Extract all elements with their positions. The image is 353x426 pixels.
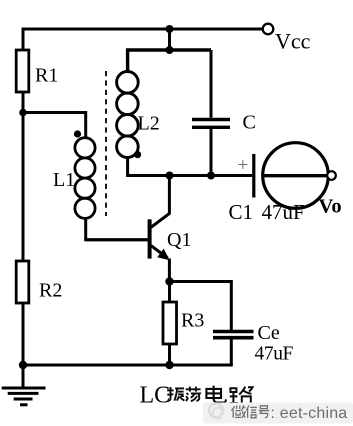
node junction R3 bottom xyxy=(165,361,173,369)
inductor L1 phase dot xyxy=(74,130,81,137)
wire L2 top up and right to capacitor C xyxy=(128,50,211,72)
node junction collector xyxy=(166,172,174,180)
terminal small circle right xyxy=(327,171,336,180)
inductor L2 phase dot xyxy=(134,151,141,158)
capacitor C1 left plate xyxy=(252,154,255,198)
svg-text:Vo: Vo xyxy=(319,196,342,218)
inductor L1 coil 2 xyxy=(75,158,95,178)
svg-text:: eet-china: : eet-china xyxy=(271,405,348,422)
wire left rail R1 to R2 xyxy=(22,92,25,261)
transistor Q1 emitter with arrow xyxy=(151,246,168,258)
inductor L2 coil 2 xyxy=(117,93,139,115)
wire top rail Vcc xyxy=(23,28,263,31)
wire from left rail to L1 top xyxy=(23,113,86,139)
transformer core dashed line xyxy=(105,71,107,216)
svg-text:+: + xyxy=(238,155,249,176)
wire left rail R2 to ground xyxy=(22,303,25,387)
node junction second rail xyxy=(166,46,174,54)
inductor L2 coil 1 xyxy=(117,72,139,94)
svg-text:R1: R1 xyxy=(35,65,58,87)
node junction emitter xyxy=(165,277,173,285)
svg-text:C: C xyxy=(243,112,256,134)
capacitor Ce top plate xyxy=(213,330,254,334)
inductor L1 coil 1 xyxy=(75,138,95,158)
ground line 1 xyxy=(2,387,46,390)
title char zhen 振 xyxy=(167,387,184,401)
ground line 3 xyxy=(14,398,33,401)
watermark swirl logo xyxy=(209,404,223,419)
capacitor C top plate xyxy=(192,118,230,121)
wire bottom rail xyxy=(23,364,233,367)
wire emitter junction to Ce branch xyxy=(170,280,233,283)
watermark char hao 号 xyxy=(259,406,269,418)
wire tie between rails x169 xyxy=(168,29,171,50)
transistor Q1 base bar xyxy=(148,219,152,258)
svg-text:R2: R2 xyxy=(39,280,62,302)
resistor R2 xyxy=(16,261,29,303)
title char dian 电 xyxy=(206,386,226,403)
inductor L2 coil 4 xyxy=(117,136,139,158)
wire left rail top segment xyxy=(22,28,25,51)
wire L2 bottom to mid rail xyxy=(128,157,253,176)
output load circle Vo xyxy=(263,143,329,209)
wire R3 top xyxy=(168,282,171,303)
svg-text:R3: R3 xyxy=(181,310,204,332)
terminal Vcc circle xyxy=(263,24,274,35)
title char lu 路 xyxy=(230,387,253,404)
node junction left at y112 xyxy=(19,109,27,117)
diameter line through load circle xyxy=(262,174,329,177)
svg-text:Q1: Q1 xyxy=(167,229,191,251)
svg-text:L1: L1 xyxy=(53,169,75,191)
svg-text:C1: C1 xyxy=(229,200,254,224)
inductor L1 coil 3 xyxy=(75,178,95,198)
wire C bottom plate down to mid rail xyxy=(210,129,213,176)
inductor L1 coil 4 xyxy=(75,198,95,218)
svg-text:Vcc: Vcc xyxy=(275,29,311,54)
wire L1 bottom to transistor base xyxy=(86,218,148,239)
node junction top rail xyxy=(166,25,174,33)
ground line 4 xyxy=(20,403,28,406)
node junction C bottom xyxy=(207,172,215,180)
svg-text:L2: L2 xyxy=(138,113,160,135)
title char dang 荡 xyxy=(186,387,201,402)
resistor R1 xyxy=(16,50,29,92)
transistor Q1 collector wire xyxy=(151,176,169,228)
inductor L2 coil 3 xyxy=(117,115,139,137)
capacitor Ce bottom plate xyxy=(213,336,254,340)
watermark char xin 信 xyxy=(246,405,256,417)
wire base from L1 xyxy=(86,238,148,241)
svg-text:47uF: 47uF xyxy=(262,200,305,224)
watermark char wei 微 xyxy=(231,405,245,418)
wire R3 bottom xyxy=(168,344,171,365)
watermark band xyxy=(203,403,353,424)
wire emitter down xyxy=(168,259,171,282)
wire down to Ce top plate xyxy=(230,282,233,331)
wire Ce bottom plate down xyxy=(230,339,233,365)
capacitor C bottom plate xyxy=(192,126,230,129)
node junction ground xyxy=(19,361,27,369)
wire down to capacitor C top plate xyxy=(210,50,213,118)
ground line 2 xyxy=(8,392,39,395)
svg-text:LC: LC xyxy=(140,382,171,408)
svg-text:Ce: Ce xyxy=(258,322,280,344)
svg-text:47uF: 47uF xyxy=(255,344,294,365)
resistor R3 xyxy=(163,302,177,344)
